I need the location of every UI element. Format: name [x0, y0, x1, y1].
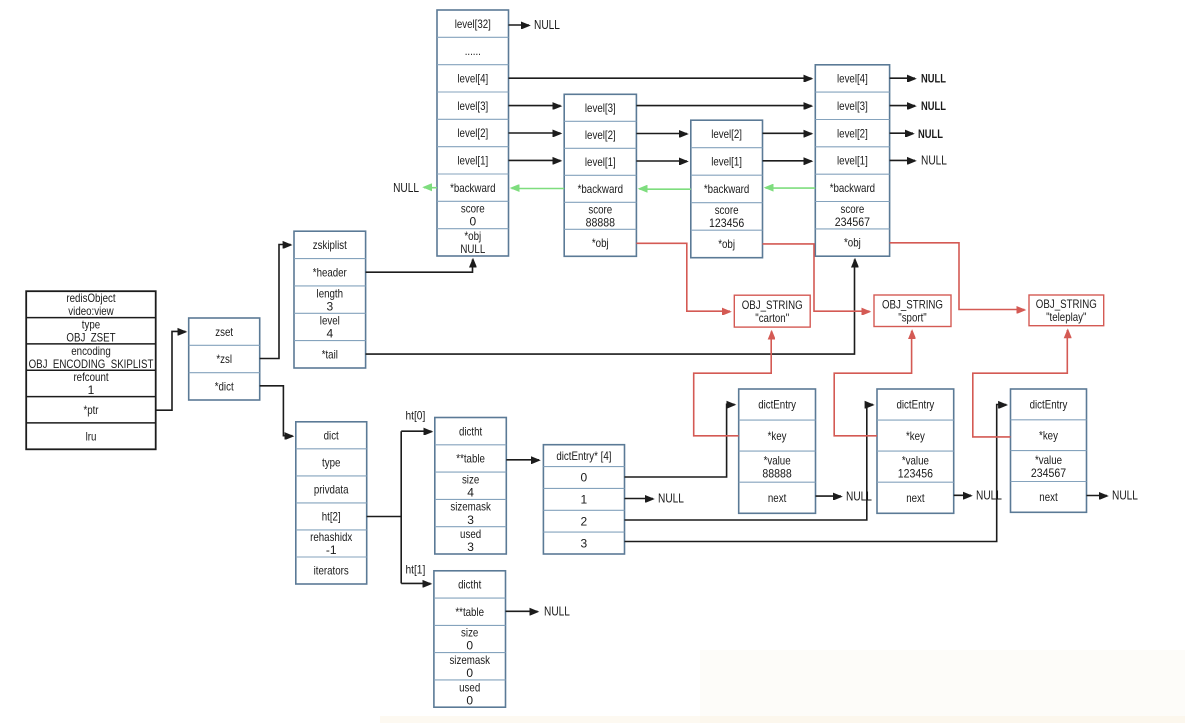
- svg-text:sizemask: sizemask: [450, 500, 491, 514]
- svg-text:score: score: [461, 202, 485, 216]
- svg-text:NULL: NULL: [460, 242, 485, 256]
- svg-text:*key: *key: [906, 429, 925, 443]
- svg-text:OBJ_STRING: OBJ_STRING: [882, 297, 943, 311]
- table zskiplist: [294, 231, 366, 368]
- table dict: [296, 422, 367, 584]
- svg-text:"carton": "carton": [755, 311, 789, 325]
- svg-text:rehashidx: rehashidx: [310, 530, 352, 544]
- box OBJ_STRING teleplay: [1029, 295, 1104, 326]
- table skiplist node score 234567: [815, 65, 889, 256]
- svg-text:OBJ_ZSET: OBJ_ZSET: [66, 330, 116, 344]
- arrow node 123456 level[2] to node 234567 level[2]: [763, 132, 812, 134]
- svg-text:refcount: refcount: [73, 370, 109, 384]
- svg-text:dictht: dictht: [458, 578, 482, 592]
- svg-text:*key: *key: [1039, 428, 1058, 442]
- arrow header level[32] to NULL: [509, 24, 530, 26]
- wire dict ht[2] junction: [367, 431, 402, 583]
- svg-text:"sport": "sport": [898, 310, 927, 324]
- svg-text:123456: 123456: [709, 216, 744, 230]
- svg-text:level[1]: level[1]: [585, 155, 616, 169]
- svg-text:*value: *value: [1035, 453, 1062, 467]
- svg-text:size: size: [461, 626, 479, 640]
- svg-text:encoding: encoding: [71, 344, 111, 358]
- arrow node 88888 level[2] to node 123456 level[2]: [636, 133, 687, 135]
- svg-text:88888: 88888: [586, 216, 616, 230]
- svg-text:dictht: dictht: [459, 424, 483, 438]
- svg-text:size: size: [462, 472, 480, 486]
- svg-text:ht[2]: ht[2]: [322, 510, 341, 524]
- table skiplist node score 123456: [691, 120, 763, 258]
- arrow node 234567 level[4] to NULL: [890, 77, 915, 79]
- svg-text:*obj: *obj: [844, 236, 861, 250]
- svg-text:2: 2: [581, 514, 588, 528]
- svg-text:*backward: *backward: [830, 181, 875, 195]
- arrow array slot 3 to dictEntry 234567: [625, 405, 1007, 542]
- svg-text:1: 1: [88, 383, 95, 397]
- svg-text:1: 1: [581, 493, 588, 507]
- svg-text:OBJ_ENCODING_SKIPLIST: OBJ_ENCODING_SKIPLIST: [29, 357, 154, 371]
- faint warm tint bottom right: [700, 650, 1185, 723]
- svg-text:next: next: [906, 491, 925, 505]
- svg-text:NULL: NULL: [918, 127, 943, 141]
- svg-text:iterators: iterators: [314, 564, 349, 578]
- svg-text:sizemask: sizemask: [449, 653, 490, 667]
- svg-text:OBJ_STRING: OBJ_STRING: [1036, 297, 1097, 311]
- arrow zset *dict to dict: [260, 386, 293, 436]
- svg-text:dict: dict: [324, 429, 340, 443]
- green arrow node 234567 *backward to node 123456: [766, 187, 816, 189]
- table dictEntry*[4] array: [543, 445, 624, 554]
- svg-text:NULL: NULL: [976, 489, 1002, 503]
- box OBJ_STRING carton: [734, 295, 810, 327]
- table dictEntry 234567: [1011, 389, 1087, 512]
- green arrow node 123456 *backward to node 88888: [640, 188, 691, 190]
- svg-text:NULL: NULL: [534, 18, 560, 32]
- arrow ht[2] branch to dictht ht[0]: [401, 430, 431, 432]
- arrow dictEntry 234567 next to NULL: [1087, 495, 1108, 497]
- arrow node 88888 level[3] to node 234567 level[3]: [636, 105, 811, 107]
- svg-text:zskiplist: zskiplist: [313, 238, 348, 252]
- svg-text:NULL: NULL: [1112, 489, 1138, 503]
- svg-text:4: 4: [467, 485, 474, 499]
- svg-text:level[1]: level[1]: [837, 154, 868, 168]
- arrow array slot 1 to NULL: [625, 498, 654, 500]
- svg-text:OBJ_STRING: OBJ_STRING: [742, 298, 803, 312]
- svg-text:*obj: *obj: [592, 236, 609, 250]
- svg-text:level[2]: level[2]: [711, 127, 742, 141]
- red arrow dictEntry 123456 *key to sport: [834, 331, 911, 436]
- arrow zskiplist *tail to node 234567 *obj: [366, 260, 855, 355]
- svg-text:level[3]: level[3]: [837, 99, 868, 113]
- green arrow node 88888 *backward to header: [512, 188, 565, 190]
- svg-text:*key: *key: [768, 429, 787, 443]
- arrow header level[4] to node 234567 level[4]: [509, 77, 812, 79]
- svg-text:**table: **table: [456, 452, 485, 466]
- arrow dictEntry 123456 next to NULL: [954, 494, 971, 496]
- svg-text:video:view: video:view: [68, 304, 114, 318]
- table dictht ht[1]: [434, 571, 506, 708]
- svg-text:next: next: [768, 491, 787, 505]
- arrow node 234567 level[1] to NULL: [890, 159, 915, 161]
- svg-text:score: score: [588, 203, 612, 217]
- table zset: [189, 318, 260, 400]
- svg-text:type: type: [322, 456, 341, 470]
- svg-text:NULL: NULL: [921, 99, 946, 113]
- svg-text:length: length: [317, 286, 344, 300]
- svg-text:score: score: [715, 203, 739, 217]
- table dictht ht[0]: [435, 418, 507, 555]
- arrow array slot 2 to dictEntry 123456: [625, 404, 873, 520]
- arrow dictht1 **table to NULL: [506, 610, 538, 612]
- svg-text:lru: lru: [86, 429, 97, 443]
- svg-text:zset: zset: [215, 325, 233, 339]
- arrow header level[1] to node 88888 level[1]: [509, 159, 561, 161]
- green arrow header *backward to NULL: [424, 187, 437, 189]
- svg-text:dictEntry: dictEntry: [1030, 398, 1068, 412]
- svg-text:3: 3: [467, 513, 474, 527]
- arrow ht[2] branch to dictht ht[1]: [401, 582, 430, 584]
- svg-text:*backward: *backward: [578, 182, 623, 196]
- svg-text:234567: 234567: [1031, 466, 1066, 480]
- svg-text:level[2]: level[2]: [457, 126, 488, 140]
- arrow node 123456 level[1] to node 234567 level[1]: [763, 160, 812, 162]
- svg-text:dictEntry* [4]: dictEntry* [4]: [556, 449, 611, 463]
- table dictEntry 88888: [739, 389, 816, 513]
- svg-text:ht[1]: ht[1]: [406, 563, 426, 577]
- svg-text:level[1]: level[1]: [457, 154, 488, 168]
- arrow dictEntry 88888 next to NULL: [816, 495, 842, 497]
- svg-text:level[32]: level[32]: [455, 17, 491, 31]
- svg-text:0: 0: [466, 693, 473, 707]
- arrow node 234567 level[2] to NULL: [890, 132, 913, 134]
- arrow dictht0 **table to dictEntry*[4]: [506, 459, 539, 461]
- svg-text:type: type: [82, 317, 101, 331]
- red arrow dictEntry 234567 *key to teleplay: [973, 330, 1068, 437]
- svg-text:*tail: *tail: [322, 348, 338, 362]
- svg-text:level[3]: level[3]: [457, 99, 488, 113]
- svg-text:*obj: *obj: [718, 237, 735, 251]
- svg-text:0: 0: [466, 639, 473, 653]
- svg-text:"teleplay": "teleplay": [1046, 310, 1086, 324]
- table dictEntry 123456: [877, 389, 954, 513]
- svg-text:*zsl: *zsl: [216, 352, 232, 366]
- svg-text:*value: *value: [902, 453, 929, 467]
- svg-text:......: ......: [465, 44, 481, 58]
- svg-text:redisObject: redisObject: [66, 291, 116, 305]
- svg-text:3: 3: [581, 536, 588, 550]
- svg-text:0: 0: [581, 471, 588, 485]
- svg-text:level[2]: level[2]: [585, 128, 616, 142]
- svg-text:*backward: *backward: [704, 182, 749, 196]
- svg-text:*dict: *dict: [215, 380, 234, 394]
- svg-text:NULL: NULL: [921, 71, 946, 85]
- box OBJ_STRING sport: [874, 295, 951, 327]
- svg-text:dictEntry: dictEntry: [758, 398, 796, 412]
- svg-text:**table: **table: [455, 605, 484, 619]
- svg-text:*header: *header: [313, 265, 347, 279]
- svg-text:123456: 123456: [898, 466, 933, 480]
- svg-text:level[4]: level[4]: [457, 72, 488, 86]
- svg-text:NULL: NULL: [658, 492, 684, 506]
- svg-text:level[2]: level[2]: [837, 126, 868, 140]
- table skiplist header node: [437, 10, 509, 256]
- svg-text:NULL: NULL: [921, 154, 947, 168]
- svg-text:NULL: NULL: [846, 489, 872, 503]
- svg-text:used: used: [460, 527, 481, 541]
- svg-text:privdata: privdata: [314, 483, 349, 497]
- arrow header level[2] to node 88888 level[2]: [509, 132, 561, 134]
- svg-text:*value: *value: [764, 453, 791, 467]
- svg-text:0: 0: [469, 215, 476, 229]
- red arrow node 234567 *obj to OBJ_STRING teleplay: [890, 243, 1025, 310]
- svg-text:3: 3: [467, 540, 474, 554]
- svg-text:level[1]: level[1]: [711, 155, 742, 169]
- svg-text:NULL: NULL: [393, 181, 419, 195]
- table skiplist node score 88888: [564, 94, 636, 256]
- svg-text:4: 4: [326, 327, 333, 341]
- svg-text:level[3]: level[3]: [585, 101, 616, 115]
- svg-text:used: used: [459, 680, 480, 694]
- arrow array slot 0 to dictEntry 88888: [625, 404, 735, 477]
- table redisObject (video:view): [26, 291, 156, 449]
- arrow node 234567 level[3] to NULL: [890, 105, 915, 107]
- arrow *ptr to zset: [156, 331, 186, 410]
- arrow header level[3] to node 88888 level[3]: [509, 105, 561, 107]
- svg-text:ht[0]: ht[0]: [406, 409, 426, 423]
- svg-text:*ptr: *ptr: [83, 403, 98, 417]
- svg-text:score: score: [841, 202, 865, 216]
- svg-text:-1: -1: [326, 543, 337, 557]
- svg-text:234567: 234567: [835, 215, 870, 229]
- svg-text:NULL: NULL: [544, 605, 570, 619]
- svg-text:*obj: *obj: [464, 229, 481, 243]
- arrow node 88888 level[1] to node 123456 level[1]: [636, 160, 687, 162]
- red arrow dictEntry 88888 *key to carton: [694, 332, 772, 436]
- svg-text:level: level: [320, 314, 340, 328]
- red arrow node 88888 *obj to OBJ_STRING carton: [636, 243, 730, 311]
- red arrow node 123456 *obj to OBJ_STRING sport: [763, 244, 870, 311]
- arrow zset *zsl to zskiplist: [260, 245, 291, 359]
- svg-text:dictEntry: dictEntry: [897, 398, 935, 412]
- svg-text:*backward: *backward: [450, 181, 495, 195]
- svg-text:3: 3: [326, 299, 333, 313]
- arrow zskiplist *header to header node: [366, 260, 473, 273]
- svg-text:next: next: [1039, 490, 1058, 504]
- svg-text:level[4]: level[4]: [837, 72, 868, 86]
- svg-text:88888: 88888: [762, 466, 792, 480]
- svg-text:0: 0: [466, 666, 473, 680]
